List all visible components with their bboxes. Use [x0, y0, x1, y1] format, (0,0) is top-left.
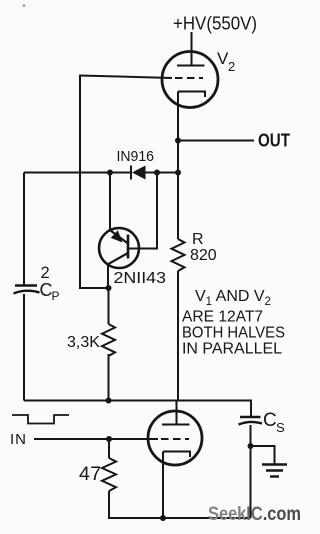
wire collector down: [107, 265, 109, 289]
node OUT junction: [175, 138, 181, 144]
V2 cathode: [178, 92, 205, 98]
svg-text:ARE 12AT7: ARE 12AT7: [182, 309, 263, 326]
wire diode anode to main vertical: [145, 172, 178, 174]
junction diode row / emitter: [107, 170, 113, 176]
svg-text:SeekIC.com: SeekIC.com: [208, 503, 301, 525]
V2 plate (anode): [177, 65, 205, 67]
wire left rail top, diode row: [24, 172, 131, 174]
svg-text:47: 47: [79, 463, 102, 485]
Q1 base bar: [127, 235, 130, 259]
svg-text:IN: IN: [10, 431, 27, 448]
resistor 3.3K: [102, 324, 115, 356]
wire R820 to bottom row: [177, 271, 179, 401]
label CS: [263, 410, 285, 435]
svg-text:P: P: [52, 289, 60, 303]
Q1 collector line: [108, 253, 129, 265]
svg-text:820: 820: [190, 247, 217, 264]
junction diode row / base: [154, 170, 160, 176]
label CP: [40, 280, 60, 303]
ground: [262, 463, 287, 465]
svg-text:3,3K: 3,3K: [67, 334, 100, 351]
svg-text:BOTH HALVES: BOTH HALVES: [182, 325, 285, 342]
Q1 emitter line: [111, 231, 129, 244]
capacitor CP top plate: [15, 284, 37, 286]
wire main vertical OUT node to diode row: [177, 141, 179, 173]
svg-text:S: S: [276, 420, 285, 435]
label V2: [217, 49, 235, 74]
V2 grid (dashed): [175, 77, 203, 79]
wire plate V2 to +HV: [191, 32, 193, 66]
wire collector node to 3.3K: [108, 288, 110, 324]
junction IN / 47: [106, 436, 112, 442]
svg-text:IN916: IN916: [117, 148, 155, 165]
junction cathode / bottom wire: [160, 515, 166, 521]
wire left rail lower: [23, 294, 25, 401]
V1 grid (dashed): [161, 438, 189, 440]
watermark SeekIC.com: [208, 503, 301, 525]
wire CS node down to bottom wire: [250, 446, 252, 518]
speck artifact: [23, 4, 26, 7]
wire bottom row left rail to CS: [24, 401, 251, 417]
svg-text:+HV(550V): +HV(550V): [173, 14, 257, 34]
capacitor CS bottom plate: [239, 422, 263, 425]
Q1 emitter arrow: [111, 230, 123, 242]
diode D1 1N916 cathode bar: [130, 166, 132, 180]
wire V1 plate up: [176, 401, 178, 425]
pulse waveform symbol: [12, 415, 69, 424]
wire 47 top: [108, 439, 110, 458]
wire ground branch: [251, 446, 275, 464]
junction collector node: [106, 285, 112, 291]
wire emitter up to diode row: [109, 173, 111, 231]
svg-text:2NII43: 2NII43: [114, 270, 167, 287]
junction diode row / main vertical: [175, 170, 181, 176]
wire V2 cathode down to OUT node: [177, 92, 179, 142]
junction 3.3K bottom: [106, 398, 112, 404]
wire 47 bottom to bottom wire: [109, 491, 251, 518]
wire left rail upper: [23, 173, 25, 286]
svg-text:2: 2: [228, 59, 235, 74]
svg-text:V1 AND V2: V1 AND V2: [195, 288, 271, 308]
svg-text:C: C: [263, 410, 277, 431]
svg-text:OUT: OUT: [258, 131, 290, 151]
wire main vertical diode row to R820: [177, 173, 179, 240]
wire 3.3K to bottom row: [108, 354, 110, 401]
resistor R 820: [172, 239, 185, 271]
wire V1 cathode down: [162, 452, 164, 519]
svg-text:R: R: [192, 231, 204, 248]
svg-text:IN PARALLEL: IN PARALLEL: [182, 341, 282, 358]
junction CS bottom: [248, 443, 254, 449]
triode tube V2: [162, 52, 218, 108]
wire CS to ground node: [250, 425, 252, 446]
V1 plate (anode): [162, 424, 190, 426]
capacitor CS top plate: [240, 416, 261, 418]
capacitor CP bottom plate: [14, 291, 40, 294]
resistor 47: [102, 458, 116, 491]
note text V1 and V2: [182, 288, 285, 358]
wire V2 grid to left vertical: [80, 76, 172, 289]
wire IN to V1 grid: [34, 438, 158, 440]
triode tube V1: [148, 411, 202, 465]
diode D1 1N916 triangle: [132, 166, 146, 180]
V1 cathode: [163, 452, 190, 458]
wire OUT: [181, 140, 254, 142]
transistor Q1 2N1143: [99, 228, 139, 268]
wire base to diode row: [128, 173, 157, 249]
